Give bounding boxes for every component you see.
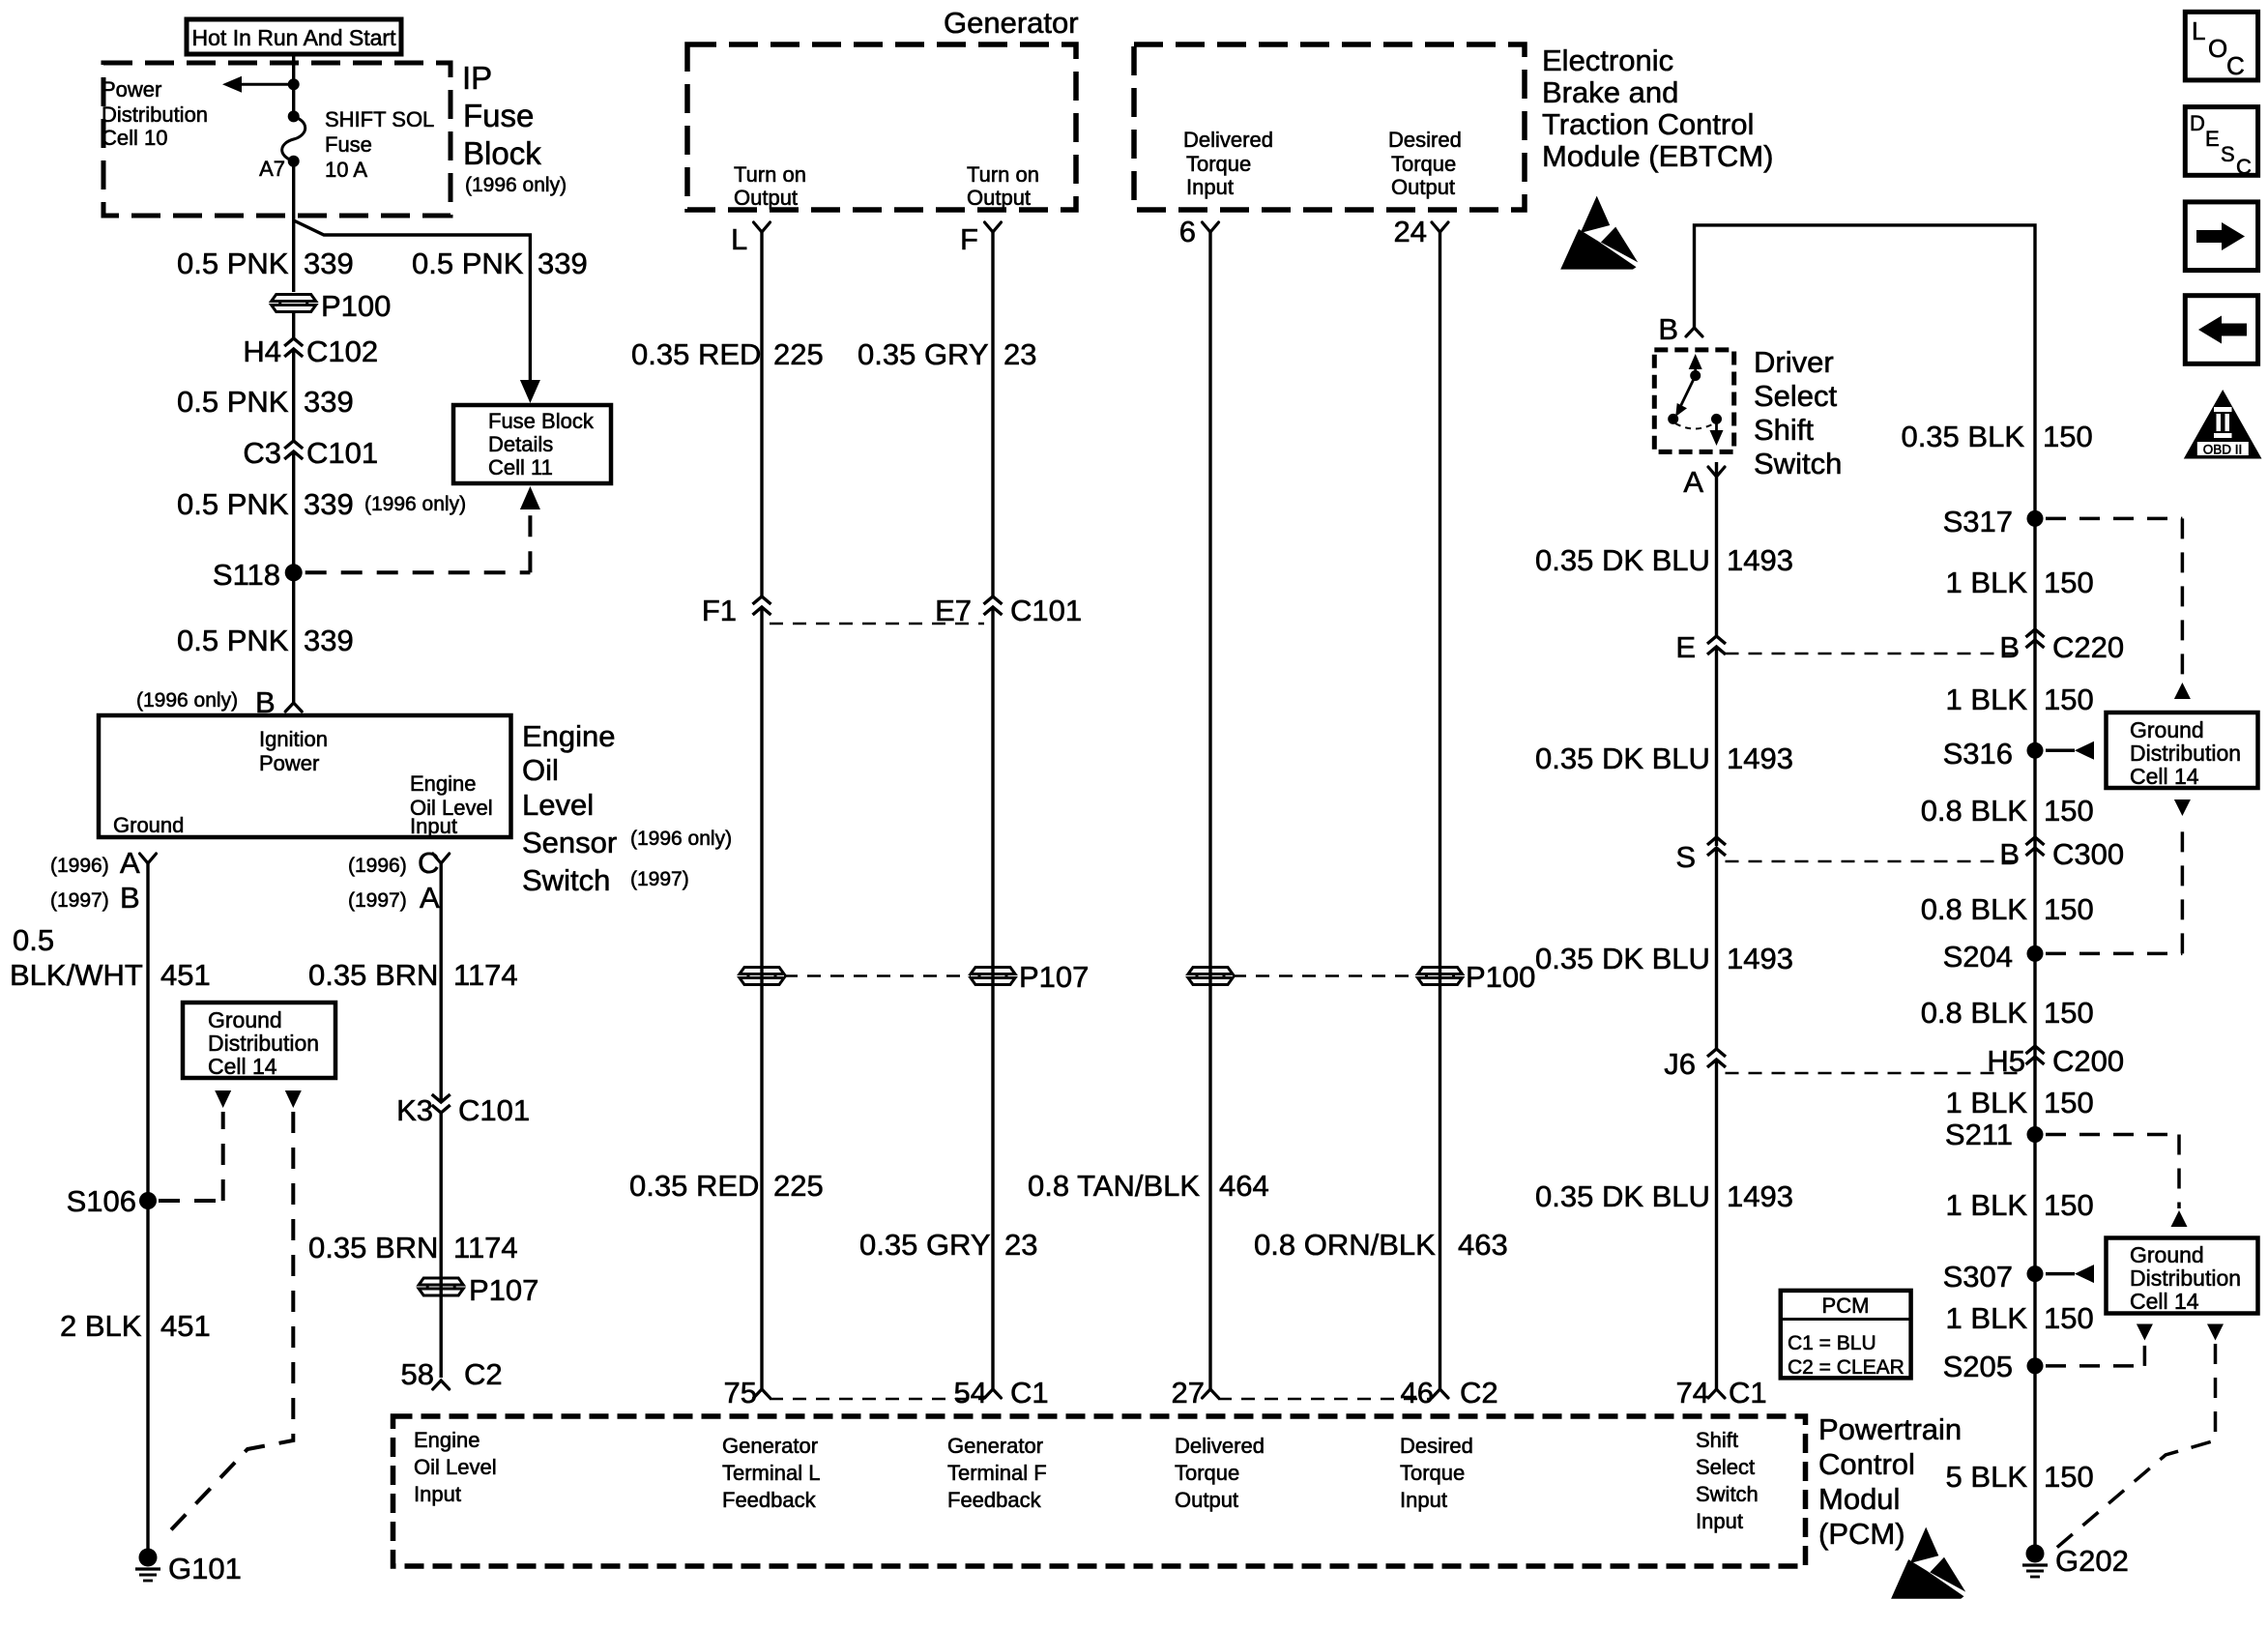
- ground pin chevron: [140, 854, 157, 863]
- svg-text:Powertrain: Powertrain: [1818, 1412, 1962, 1446]
- splice S317 dot: [2027, 510, 2044, 527]
- EBTCM pin 6 chevron: [1203, 222, 1219, 232]
- svg-text:0.5 PNK: 0.5 PNK: [177, 385, 289, 419]
- svg-text:0.8 BLK: 0.8 BLK: [1921, 794, 2028, 828]
- grommet row P100: [1188, 968, 1233, 974]
- svg-text:Input: Input: [1696, 1509, 1743, 1533]
- dashed link S317 to cell 14: [2046, 517, 2182, 521]
- svg-text:L: L: [2192, 16, 2205, 45]
- arrowhead to ground distribution (left): [215, 1090, 231, 1108]
- Fuse Block Details box: [453, 405, 611, 483]
- PCM pin 27: [1203, 1389, 1219, 1398]
- svg-text:Turn on: Turn on: [967, 162, 1039, 187]
- svg-text:Engine: Engine: [410, 771, 477, 796]
- svg-text:46: 46: [1401, 1376, 1434, 1410]
- switch output arrow down: [1715, 419, 1718, 438]
- connector C300 pin B: [2026, 837, 2045, 845]
- svg-text:G101: G101: [168, 1552, 242, 1585]
- svg-text:339: 339: [304, 487, 354, 521]
- wire: power distribution feed: [233, 83, 294, 86]
- delivered torque wire: [1208, 232, 1211, 967]
- svg-text:F: F: [960, 222, 978, 256]
- arrowhead down from cell 14 (G202): [2207, 1324, 2224, 1341]
- svg-text:B: B: [1999, 837, 2020, 871]
- svg-text:Distribution: Distribution: [208, 1031, 319, 1056]
- svg-text:464: 464: [1219, 1169, 1269, 1203]
- svg-text:Torque: Torque: [1175, 1461, 1239, 1485]
- svg-text:Turn on: Turn on: [734, 162, 806, 187]
- svg-text:Torque: Torque: [1391, 152, 1456, 176]
- svg-text:(1996 only): (1996 only): [630, 828, 732, 850]
- svg-text:Input: Input: [414, 1482, 461, 1506]
- svg-text:Cell 11: Cell 11: [488, 455, 553, 480]
- svg-text:150: 150: [2044, 892, 2094, 926]
- svg-text:225: 225: [773, 337, 824, 371]
- Ground Distribution Cell 14 box (upper): [2107, 712, 2258, 788]
- splice S307 dot: [2027, 1265, 2044, 1282]
- input pin chevron: [433, 854, 450, 863]
- svg-text:Cell 14: Cell 14: [2130, 764, 2199, 789]
- Driver Select Shift Switch dashed box: [1654, 350, 1733, 452]
- connector C102 pin H4: [284, 338, 303, 346]
- svg-text:Driver: Driver: [1754, 345, 1834, 379]
- svg-text:0.35 DK BLU: 0.35 DK BLU: [1535, 942, 1710, 975]
- svg-text:150: 150: [2044, 1188, 2094, 1222]
- svg-text:Ground: Ground: [2130, 717, 2204, 742]
- connector C220 pin B: [2026, 629, 2045, 637]
- PCM connector legend box: [1781, 1291, 1911, 1379]
- svg-text:339: 339: [304, 624, 354, 657]
- wire from Hot box into fuse block: [292, 54, 295, 84]
- svg-text:Input: Input: [410, 814, 457, 838]
- svg-text:0.35 RED: 0.35 RED: [629, 1169, 759, 1203]
- connector C200 pin H5: [2026, 1046, 2045, 1054]
- junction dot: [288, 78, 300, 90]
- svg-text:(1996): (1996): [50, 855, 109, 877]
- svg-text:6: 6: [1179, 215, 1196, 248]
- shift select wire segment 1: [1715, 462, 1718, 636]
- svg-text:1174: 1174: [453, 1231, 518, 1265]
- svg-text:Distribution: Distribution: [102, 102, 208, 127]
- Ground Distribution Cell 14 box (lower): [2107, 1238, 2258, 1314]
- svg-text:Hot In Run And Start: Hot In Run And Start: [192, 25, 397, 50]
- svg-text:451: 451: [160, 958, 211, 992]
- svg-text:1 BLK: 1 BLK: [1946, 1086, 2028, 1119]
- arrowhead up to ground cell (S317): [2174, 683, 2191, 699]
- svg-text:10 A: 10 A: [325, 158, 367, 182]
- splice S205 dot: [2027, 1357, 2044, 1374]
- OBD II symbol: [2184, 390, 2262, 459]
- svg-text:Sensor: Sensor: [522, 826, 617, 859]
- svg-text:339: 339: [538, 247, 588, 280]
- Ground Distribution Cell 14 box (left): [183, 1003, 335, 1078]
- svg-text:C102: C102: [306, 334, 378, 368]
- svg-text:Terminal L: Terminal L: [722, 1461, 820, 1485]
- svg-text:C101: C101: [306, 436, 378, 470]
- svg-text:C101: C101: [1010, 594, 1082, 627]
- svg-text:C2: C2: [464, 1357, 503, 1391]
- svg-text:150: 150: [2044, 1301, 2094, 1335]
- svg-text:0.5 PNK: 0.5 PNK: [177, 247, 289, 280]
- wire into fuse: [292, 84, 295, 116]
- connector C101 pin C3: [284, 441, 303, 449]
- svg-text:339: 339: [304, 385, 354, 419]
- svg-text:A: A: [120, 846, 140, 880]
- svg-text:Power: Power: [102, 77, 161, 102]
- EBTCM output wire to ground circuit: [1695, 225, 2036, 1554]
- svg-text:C: C: [2236, 155, 2252, 179]
- svg-text:P107: P107: [469, 1273, 538, 1307]
- svg-text:Distribution: Distribution: [2130, 741, 2241, 766]
- shift select wire segment 2: [1715, 647, 1718, 846]
- svg-text:(1996): (1996): [348, 855, 407, 877]
- splice S316 dot: [2027, 742, 2044, 759]
- pin chevron into sensor switch: [285, 703, 302, 712]
- svg-text:Fuse: Fuse: [325, 132, 372, 157]
- svg-text:Generator: Generator: [947, 1434, 1043, 1458]
- svg-text:Distribution: Distribution: [2130, 1265, 2241, 1291]
- svg-text:Generator: Generator: [722, 1434, 818, 1458]
- svg-text:0.8 BLK: 0.8 BLK: [1921, 996, 2028, 1030]
- svg-text:Details: Details: [488, 432, 553, 456]
- svg-text:Output: Output: [967, 186, 1031, 210]
- dashed link S-B C300: [1726, 860, 2026, 863]
- label box: Hot In Run And Start: [187, 19, 401, 54]
- shift select wire segment 4: [1715, 1060, 1718, 1389]
- svg-text:24: 24: [1394, 215, 1427, 248]
- svg-text:C300: C300: [2052, 837, 2124, 871]
- arrowhead down from ground cell (S204): [2174, 799, 2191, 816]
- svg-text:K3: K3: [396, 1093, 433, 1127]
- svg-text:Torque: Torque: [1186, 152, 1251, 176]
- svg-text:0.35 RED: 0.35 RED: [631, 337, 761, 371]
- svg-text:150: 150: [2044, 794, 2094, 828]
- svg-text:C1 = BLU: C1 = BLU: [1788, 1332, 1876, 1354]
- wire segment: [440, 1113, 443, 1378]
- dashed arrowhead into Fuse Block Details box: [520, 486, 540, 509]
- generator pin F chevron: [985, 222, 1002, 232]
- connector C300 pin S: [1707, 837, 1726, 845]
- dashed link J6-H5 C200: [1726, 1072, 2026, 1075]
- dashed link G202 to cell 14: [2054, 1344, 2216, 1550]
- svg-text:S: S: [1675, 840, 1696, 874]
- ESD symbol at PCM: [1910, 1527, 1939, 1563]
- svg-text:Cell 10: Cell 10: [102, 126, 167, 150]
- svg-text:C: C: [2226, 51, 2245, 80]
- grommet P100: [272, 295, 316, 302]
- dashed link S118 to Fuse Block Details: [305, 570, 531, 574]
- svg-text:O: O: [2208, 34, 2227, 63]
- svg-text:Switch: Switch: [522, 863, 610, 897]
- pin A chevron of shift switch: [1708, 467, 1725, 477]
- svg-text:0.35 BRN: 0.35 BRN: [308, 1231, 438, 1265]
- svg-text:451: 451: [160, 1309, 211, 1343]
- svg-text:150: 150: [2044, 1086, 2094, 1119]
- svg-text:S316: S316: [1943, 737, 2013, 770]
- svg-text:150: 150: [2044, 1460, 2094, 1494]
- svg-text:2 BLK: 2 BLK: [60, 1309, 142, 1343]
- svg-text:(1997): (1997): [630, 868, 689, 890]
- dashed pin link 27-46: [1218, 1398, 1432, 1401]
- svg-text:P107: P107: [1019, 960, 1089, 994]
- svg-text:Shift: Shift: [1696, 1428, 1738, 1452]
- wire segment DT lower: [1208, 967, 1211, 1389]
- pin 58 C2 into PCM: [433, 1381, 450, 1389]
- wire segment F: [991, 607, 994, 1389]
- Generator dashed box: [687, 44, 1076, 210]
- svg-text:23: 23: [1004, 1228, 1037, 1262]
- svg-text:(1996 only): (1996 only): [465, 174, 567, 196]
- wire segment L: [760, 607, 763, 1389]
- svg-text:Fuse: Fuse: [463, 98, 534, 133]
- svg-text:1493: 1493: [1727, 942, 1793, 975]
- pin B chevron of shift switch: [1686, 328, 1702, 336]
- svg-text:Terminal F: Terminal F: [947, 1461, 1047, 1485]
- shift select wire segment 3: [1715, 848, 1718, 1049]
- splice S204 dot: [2027, 945, 2044, 962]
- svg-text:1 BLK: 1 BLK: [1946, 566, 2028, 599]
- switch contact dot left: [1668, 414, 1678, 424]
- EBTCM pin 24 chevron: [1432, 222, 1448, 232]
- dashed link F1-E7: [770, 623, 984, 625]
- svg-text:Engine: Engine: [414, 1428, 480, 1452]
- svg-text:Select: Select: [1754, 379, 1838, 413]
- wire segment: [292, 349, 295, 441]
- svg-text:0.35 DK BLU: 0.35 DK BLU: [1535, 741, 1710, 775]
- svg-text:0.8 TAN/BLK: 0.8 TAN/BLK: [1028, 1169, 1200, 1203]
- svg-text:Input: Input: [1400, 1488, 1447, 1512]
- svg-text:BLK/WHT: BLK/WHT: [10, 958, 143, 992]
- wire down to splice S118: [292, 451, 295, 703]
- svg-text:C2: C2: [1460, 1376, 1498, 1410]
- svg-text:0.8 BLK: 0.8 BLK: [1921, 892, 2028, 926]
- svg-text:B: B: [1658, 312, 1678, 346]
- svg-text:0.35 BLK: 0.35 BLK: [1901, 420, 2024, 453]
- svg-text:Feedback: Feedback: [722, 1488, 817, 1512]
- svg-text:(1997): (1997): [50, 889, 109, 912]
- svg-text:Desired: Desired: [1388, 128, 1462, 152]
- PCM pin 54 C1: [985, 1389, 1002, 1398]
- svg-text:Output: Output: [1391, 175, 1455, 199]
- svg-text:1493: 1493: [1727, 543, 1793, 577]
- dashed link S106 to cell 14: [159, 1199, 223, 1203]
- ESD symbol at EBTCM: [1581, 196, 1611, 233]
- svg-text:Module (EBTCM): Module (EBTCM): [1542, 139, 1773, 173]
- switch travel dashed arc: [1675, 423, 1714, 429]
- svg-text:S204: S204: [1943, 940, 2013, 974]
- svg-text:1 BLK: 1 BLK: [1946, 1188, 2028, 1222]
- svg-text:Switch: Switch: [1754, 447, 1842, 480]
- desired torque wire: [1439, 232, 1441, 967]
- fuse lower terminal dot A7: [288, 156, 300, 167]
- svg-text:SHIFT SOL: SHIFT SOL: [325, 107, 434, 131]
- fuse SHIFT SOL terminal dot: [288, 110, 300, 122]
- svg-text:75: 75: [724, 1376, 757, 1410]
- svg-text:A: A: [1683, 465, 1703, 499]
- svg-text:58: 58: [401, 1357, 434, 1391]
- svg-text:Desired: Desired: [1400, 1434, 1473, 1458]
- grommet P107 (left): [419, 1278, 463, 1285]
- splice S106 dot: [139, 1192, 157, 1209]
- dashed link S205 to cell 14: [2046, 1364, 2144, 1368]
- svg-text:Ignition: Ignition: [259, 727, 328, 751]
- svg-text:0.35 BRN: 0.35 BRN: [308, 958, 438, 992]
- svg-text:1 BLK: 1 BLK: [1946, 1301, 2028, 1335]
- svg-text:OBD II: OBD II: [2203, 443, 2243, 457]
- dashed link E-B C220: [1726, 653, 2026, 655]
- svg-text:Oil: Oil: [522, 753, 559, 787]
- svg-text:C3: C3: [243, 436, 281, 470]
- svg-text:L: L: [731, 222, 747, 256]
- svg-text:0.8 ORN/BLK: 0.8 ORN/BLK: [1254, 1228, 1436, 1262]
- arrow right box: [2185, 202, 2257, 271]
- link S316 to cell 14: [2046, 749, 2075, 753]
- svg-text:Input: Input: [1186, 175, 1234, 199]
- svg-text:IP: IP: [462, 60, 492, 96]
- svg-text:(PCM): (PCM): [1818, 1517, 1905, 1551]
- arrowhead up to ground cell lower (S211): [2171, 1210, 2188, 1227]
- branch wire to fuse block details: [294, 220, 531, 387]
- EBTCM torque dashed box: [1134, 44, 1525, 210]
- svg-text:Delivered: Delivered: [1175, 1434, 1265, 1458]
- ground G202: [2026, 1545, 2045, 1563]
- switch contact arrow up: [1694, 360, 1697, 376]
- svg-text:G202: G202: [2055, 1544, 2129, 1578]
- Powertrain Control Module dashed box: [393, 1416, 1806, 1566]
- svg-text:Switch: Switch: [1696, 1482, 1759, 1506]
- svg-text:Block: Block: [463, 135, 541, 171]
- svg-text:1493: 1493: [1727, 741, 1793, 775]
- dashed link S211 to cell 14 lower: [2046, 1133, 2179, 1137]
- wire segment: [292, 312, 295, 338]
- svg-text:D: D: [2190, 111, 2205, 135]
- svg-text:150: 150: [2044, 996, 2094, 1030]
- svg-text:0.35 DK BLU: 0.35 DK BLU: [1535, 543, 1710, 577]
- dashed link G101 to cell 14: [162, 1112, 293, 1539]
- svg-text:P100: P100: [1466, 960, 1535, 994]
- dashed grommet link 2: [1233, 974, 1418, 977]
- svg-text:0.35 GRY: 0.35 GRY: [858, 337, 989, 371]
- svg-text:Feedback: Feedback: [947, 1488, 1042, 1512]
- svg-text:Ground: Ground: [2130, 1242, 2204, 1267]
- svg-text:E: E: [2205, 127, 2220, 151]
- switch pivot dot: [1690, 370, 1701, 381]
- LOC reference box: [2185, 12, 2257, 80]
- svg-text:C1: C1: [1010, 1376, 1049, 1410]
- switch arm: [1680, 376, 1696, 409]
- svg-text:Modul: Modul: [1818, 1482, 1900, 1516]
- wire segment DS lower: [1439, 967, 1441, 1389]
- generator terminal L wire: [760, 232, 763, 596]
- svg-text:27: 27: [1172, 1376, 1205, 1410]
- svg-text:1493: 1493: [1727, 1179, 1793, 1213]
- svg-text:463: 463: [1458, 1228, 1508, 1262]
- svg-text:S118: S118: [213, 558, 280, 592]
- svg-text:E: E: [1675, 630, 1696, 664]
- svg-text:(1996 only): (1996 only): [136, 689, 238, 712]
- svg-text:S106: S106: [67, 1184, 136, 1218]
- link S307 to cell 14: [2046, 1272, 2075, 1276]
- svg-text:Cell 14: Cell 14: [2130, 1289, 2199, 1314]
- svg-text:Fuse Block: Fuse Block: [488, 409, 595, 433]
- svg-text:Ground: Ground: [113, 813, 184, 837]
- svg-text:B: B: [120, 881, 140, 915]
- grommet row P107: [740, 968, 784, 974]
- ground wire 0.5 BLK/WHT 451: [146, 863, 149, 1557]
- connector C101 pin K3: [432, 1094, 451, 1102]
- wire 0.35 BRN 1174 upper: [440, 863, 443, 1102]
- svg-text:0.5 PNK: 0.5 PNK: [177, 624, 289, 657]
- svg-text:C: C: [418, 846, 439, 880]
- svg-text:(1996 only): (1996 only): [364, 493, 466, 515]
- dashed pin link 75-54: [770, 1398, 984, 1401]
- svg-text:74: 74: [1676, 1376, 1709, 1410]
- svg-text:Generator: Generator: [944, 6, 1079, 40]
- svg-text:Shift: Shift: [1754, 413, 1814, 447]
- svg-text:1 BLK: 1 BLK: [1946, 683, 2028, 716]
- svg-text:S: S: [2221, 142, 2235, 166]
- svg-text:150: 150: [2043, 420, 2093, 453]
- svg-text:0.35 GRY: 0.35 GRY: [859, 1228, 991, 1262]
- svg-text:1174: 1174: [453, 958, 518, 992]
- PCM pin 74 C1: [1708, 1389, 1725, 1398]
- svg-text:C1: C1: [1729, 1376, 1767, 1410]
- svg-text:J6: J6: [1664, 1047, 1696, 1081]
- svg-text:Power: Power: [259, 751, 319, 775]
- svg-text:A: A: [420, 881, 440, 915]
- svg-text:S317: S317: [1943, 505, 2013, 538]
- dashed link S204 to cell 14: [2046, 952, 2182, 956]
- svg-text:PCM: PCM: [1822, 1294, 1870, 1318]
- PCM pin 46 C2: [1432, 1389, 1448, 1398]
- svg-text:(1997): (1997): [348, 889, 407, 912]
- svg-text:150: 150: [2044, 566, 2094, 599]
- svg-text:Cell 14: Cell 14: [208, 1054, 277, 1079]
- svg-text:S205: S205: [1943, 1350, 2013, 1383]
- Engine Oil Level Sensor Switch box: [99, 715, 511, 837]
- connector C101 pin E7: [984, 596, 1003, 604]
- svg-text:Output: Output: [734, 186, 798, 210]
- fuse SHIFT SOL 10A element: [282, 116, 305, 160]
- svg-text:0.35 DK BLU: 0.35 DK BLU: [1535, 1179, 1710, 1213]
- svg-text:Torque: Torque: [1400, 1461, 1465, 1485]
- svg-text:0.5: 0.5: [13, 923, 54, 957]
- generator terminal F wire: [991, 232, 994, 596]
- DESC reference box: [2185, 107, 2257, 176]
- svg-text:Delivered: Delivered: [1183, 128, 1273, 152]
- generator pin L chevron: [754, 222, 771, 232]
- svg-text:339: 339: [304, 247, 354, 280]
- svg-text:Oil Level: Oil Level: [414, 1455, 497, 1479]
- svg-text:5 BLK: 5 BLK: [1946, 1460, 2028, 1494]
- svg-text:S211: S211: [1945, 1118, 2013, 1151]
- svg-text:Ground: Ground: [208, 1007, 282, 1032]
- svg-text:Level: Level: [522, 788, 594, 822]
- svg-text:0.5 PNK: 0.5 PNK: [177, 487, 289, 521]
- svg-text:Engine: Engine: [522, 719, 616, 753]
- arrowhead to ground distribution (right): [285, 1090, 302, 1108]
- arrow left box: [2185, 296, 2257, 364]
- dashed grommet link: [784, 974, 971, 977]
- svg-text:54: 54: [954, 1376, 987, 1410]
- switch contact dot right: [1711, 414, 1722, 424]
- svg-text:A7: A7: [259, 157, 285, 181]
- svg-text:Select: Select: [1696, 1455, 1755, 1479]
- svg-text:Electronic: Electronic: [1542, 44, 1673, 77]
- svg-text:Output: Output: [1175, 1488, 1238, 1512]
- svg-text:P100: P100: [321, 289, 391, 323]
- svg-text:H4: H4: [243, 334, 281, 368]
